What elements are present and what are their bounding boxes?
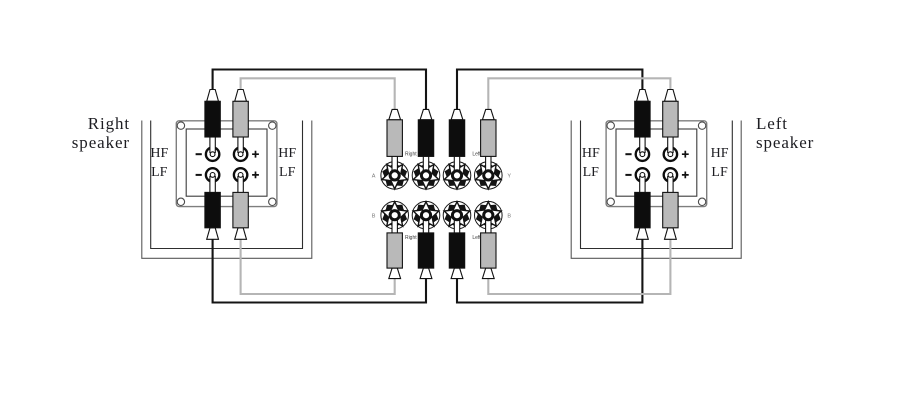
svg-text:B: B: [507, 213, 511, 219]
plus sign right panel y174.9: [252, 172, 259, 179]
svg-text:LF: LF: [151, 165, 168, 180]
banana plug HF- (black) left speaker: [635, 90, 650, 138]
banana pin into bottom amp terminal 2: [423, 219, 428, 234]
svg-text:Left: Left: [472, 151, 481, 157]
wire HF- right speaker to amp (black): [213, 70, 426, 112]
banana pin HF- left: [640, 137, 645, 153]
svg-text:Right: Right: [405, 151, 417, 157]
plus sign right panel y154.2: [252, 151, 259, 158]
screw left panel corner 3: [607, 198, 614, 205]
right speaker terminal panel: [176, 121, 277, 207]
banana pin HF- right: [210, 137, 215, 153]
plus sign left panel y174.9: [682, 172, 689, 179]
banana plug bottom amp row (black) x426.0: [418, 233, 433, 279]
banana pin into top amp terminal 3: [454, 156, 459, 172]
left speaker panel inner plate: [616, 129, 697, 196]
HF- binding post right speaker: [206, 148, 219, 161]
amp terminal B1 (right +): [381, 201, 409, 229]
svg-text:Right: Right: [405, 235, 417, 241]
banana plug LF- (black) left speaker: [635, 192, 650, 239]
center dot HF+ binding post right speaker: [238, 152, 243, 157]
wire right-speaker cabinet outer outline: [142, 121, 312, 259]
banana plug LF+ (grey) right speaker: [233, 192, 248, 239]
svg-text:Right: Right: [88, 114, 130, 133]
banana plug HF+ (grey) left speaker: [663, 90, 678, 138]
amp terminal A4 (left +): [475, 162, 503, 190]
nut of top amp terminal 1: [390, 171, 399, 180]
banana plug LF+ (grey) left speaker: [663, 192, 678, 239]
HF- binding post left speaker: [636, 148, 649, 161]
screw right panel corner 4: [269, 198, 276, 205]
banana pin HF+ right: [238, 137, 243, 153]
center dot LF+ binding post left speaker: [668, 173, 673, 178]
nut of bottom amp terminal 3: [452, 211, 461, 220]
svg-text:Left: Left: [756, 114, 788, 133]
amp terminal B3 (left -): [443, 201, 471, 229]
wire left-speaker cabinet outer outline: [571, 121, 741, 259]
banana plug HF+ (grey) right speaker: [233, 90, 248, 138]
minus sign left panel y174.9: [625, 174, 631, 176]
screw left panel corner 1: [607, 122, 614, 129]
center dot HF+ binding post left speaker: [668, 152, 673, 157]
banana pin LF+ left: [668, 176, 673, 193]
banana plug bottom amp row (gray) x488.3: [481, 233, 496, 279]
amp terminal A2 (right -): [412, 162, 440, 190]
center dot LF- binding post right speaker: [210, 173, 215, 178]
svg-text:LF: LF: [279, 165, 296, 180]
left speaker terminal panel: [606, 121, 707, 207]
amp terminal B4 (left +): [475, 201, 503, 229]
LF+ binding post left speaker: [664, 168, 677, 181]
minus sign right panel y154.2: [196, 153, 202, 155]
banana pin into top amp terminal 2: [423, 156, 428, 172]
label Right speaker: [72, 114, 130, 152]
banana pin HF+ left: [668, 137, 673, 153]
svg-text:LF: LF: [711, 165, 728, 180]
LF- binding post right speaker: [206, 168, 219, 181]
banana pin into top amp terminal 4: [486, 156, 491, 172]
right speaker panel inner plate: [186, 129, 267, 196]
screw left panel corner 2: [698, 122, 705, 129]
banana plug top amp row (gray) x488.3: [481, 109, 496, 156]
HF+ binding post right speaker: [234, 148, 247, 161]
wire HF- left speaker to amp (black): [457, 70, 642, 112]
svg-text:LF: LF: [583, 165, 600, 180]
screw right panel corner 3: [177, 198, 184, 205]
banana plug top amp row (gray) x394.7: [387, 109, 402, 156]
svg-text:speaker: speaker: [72, 133, 130, 152]
LF+ binding post right speaker: [234, 168, 247, 181]
svg-text:speaker: speaker: [756, 133, 814, 152]
nut of bottom amp terminal 4: [484, 211, 493, 220]
banana pin LF+ right: [238, 176, 243, 193]
screw left panel corner 4: [698, 198, 705, 205]
wire LF- right speaker to amp (black): [213, 237, 426, 303]
center dot LF- binding post left speaker: [640, 173, 645, 178]
svg-text:A: A: [372, 173, 376, 179]
label Left speaker: [756, 114, 814, 152]
banana pin LF- left: [640, 176, 645, 193]
plus sign left panel y154.2: [682, 151, 689, 158]
nut of top amp terminal 4: [484, 171, 493, 180]
banana plug top amp row (black) x426.0: [418, 109, 433, 156]
banana pin into top amp terminal 1: [392, 156, 397, 172]
nut of bottom amp terminal 1: [390, 211, 399, 220]
svg-text:HF: HF: [711, 146, 729, 161]
wire LF+ right speaker to amp (grey): [241, 237, 395, 294]
svg-text:B: B: [372, 213, 376, 219]
svg-text:HF: HF: [582, 146, 600, 161]
banana plug bottom amp row (gray) x394.7: [387, 233, 402, 279]
minus sign left panel y154.2: [625, 153, 631, 155]
nut of top amp terminal 2: [421, 171, 430, 180]
banana plug LF- (black) right speaker: [205, 192, 220, 239]
HF+ binding post left speaker: [664, 148, 677, 161]
amp terminal A1 (right +): [381, 162, 409, 190]
nut of top amp terminal 3: [452, 171, 461, 180]
banana plug HF- (black) right speaker: [205, 90, 220, 138]
banana plug top amp row (black) x457.0: [449, 109, 464, 156]
banana pin into bottom amp terminal 4: [486, 219, 491, 234]
screw right panel corner 1: [177, 122, 184, 129]
amp terminal A3 (left -): [443, 162, 471, 190]
svg-text:HF: HF: [150, 146, 168, 161]
banana pin LF- right: [210, 176, 215, 193]
wire right-speaker cabinet inner outline: [151, 121, 303, 249]
wire HF+ left speaker to amp (grey): [488, 78, 670, 111]
center dot HF- binding post right speaker: [210, 152, 215, 157]
LF- binding post left speaker: [636, 168, 649, 181]
banana pin into bottom amp terminal 3: [454, 219, 459, 234]
wire LF+ left speaker to amp (grey): [488, 237, 670, 294]
banana pin into bottom amp terminal 1: [392, 219, 397, 234]
minus sign right panel y174.9: [196, 174, 202, 176]
svg-text:Y: Y: [507, 173, 511, 179]
wire left-speaker cabinet inner outline: [581, 121, 733, 249]
nut of bottom amp terminal 2: [421, 211, 430, 220]
screw right panel corner 2: [269, 122, 276, 129]
wire HF+ right speaker to amp (grey): [241, 78, 395, 111]
center dot HF- binding post left speaker: [640, 152, 645, 157]
banana plug bottom amp row (black) x457.0: [449, 233, 464, 279]
svg-text:HF: HF: [278, 146, 296, 161]
center dot LF+ binding post right speaker: [238, 173, 243, 178]
amp terminal B2 (right -): [412, 201, 440, 229]
wire LF- left speaker to amp (black): [457, 237, 642, 303]
svg-text:Left: Left: [472, 235, 481, 241]
